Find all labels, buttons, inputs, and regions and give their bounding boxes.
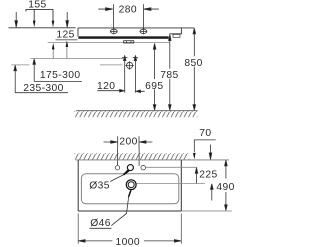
svg-text:850: 850 xyxy=(184,58,202,69)
floor hatching xyxy=(74,111,198,117)
reference line B left segment xyxy=(11,64,29,66)
280 left arrow xyxy=(98,8,112,11)
basin left edge xyxy=(77,28,79,37)
reference line A xyxy=(31,58,125,60)
200 extension to left fixing hole xyxy=(117,148,119,166)
drain hole outer circle xyxy=(126,180,136,190)
280 right arrow xyxy=(144,8,159,11)
70 left down arrow xyxy=(193,153,196,160)
155 extension left xyxy=(33,9,35,20)
wall line (plan view) xyxy=(76,159,229,161)
arrow down at x=16 xyxy=(15,12,18,27)
svg-text:Ø35: Ø35 xyxy=(89,181,110,192)
left fixing hole xyxy=(115,166,119,170)
arrow down at x=34 xyxy=(33,21,36,28)
countertop right edge xyxy=(180,160,182,211)
Ø35 leader bold tip xyxy=(124,171,129,175)
arrow down at x=53 xyxy=(52,21,55,28)
basin rear rim detail box xyxy=(173,34,180,37)
svg-text:70: 70 xyxy=(199,128,211,139)
1000 extension right xyxy=(180,214,182,244)
basin underside thick band xyxy=(78,37,168,39)
155 bracket line xyxy=(26,9,53,11)
svg-text:200: 200 xyxy=(119,137,137,148)
top baseline (basin deck level, left) xyxy=(9,27,76,29)
arrow up for 235-300 xyxy=(14,65,17,93)
basin right edge xyxy=(170,28,182,34)
faucet hole marker right xyxy=(140,28,148,34)
120 underline and right arrow xyxy=(97,89,124,92)
faucet hole marker left xyxy=(110,28,118,34)
drill symbol xyxy=(125,61,134,69)
Ø46 underline xyxy=(90,227,112,229)
200 right tick and arrow xyxy=(139,136,152,148)
70 bracket xyxy=(194,140,215,152)
right fixing hole xyxy=(141,165,146,170)
basin side profile top surface xyxy=(78,27,194,29)
svg-text:125: 125 xyxy=(56,29,74,40)
wall hatching xyxy=(75,153,189,159)
svg-text:Ø46: Ø46 xyxy=(90,218,111,229)
auxiliary up arrow at drain line xyxy=(211,184,214,201)
hanging arrow at x=67 xyxy=(66,47,68,59)
svg-text:280: 280 xyxy=(119,5,137,16)
Ø46 leader bold tip xyxy=(129,190,131,197)
Ø35 leader xyxy=(110,175,124,182)
70 right down arrow xyxy=(209,145,212,160)
faucet axis line xyxy=(146,166,198,168)
695 leader left arrow xyxy=(136,90,145,93)
280 extension line right xyxy=(142,4,144,29)
svg-text:490: 490 xyxy=(216,182,234,193)
height dimension 850 xyxy=(193,28,196,110)
supply line left with up arrow xyxy=(122,55,127,92)
drain hole inner circle xyxy=(128,182,134,188)
1000 dimension line right arrow xyxy=(144,240,181,243)
1000 dimension line left arrow xyxy=(78,240,112,243)
ceramic basin inner outline xyxy=(81,174,178,204)
under-slab reference line xyxy=(48,41,170,43)
faucet body circle xyxy=(127,165,133,171)
front extension line for 490 xyxy=(181,210,232,212)
Ø46 leader xyxy=(111,197,128,226)
200 left tick and arrow xyxy=(104,136,118,148)
280 extension line left xyxy=(113,4,115,29)
arrow up for 175-300 xyxy=(33,59,36,82)
hanging arrow at x=53 xyxy=(52,49,54,58)
155 extension right xyxy=(52,9,54,20)
arrow down at x=67 xyxy=(66,12,69,27)
svg-text:695: 695 xyxy=(145,81,163,92)
svg-text:1000: 1000 xyxy=(115,237,140,247)
200 extension to faucet hole xyxy=(138,148,140,166)
reference line B right segment xyxy=(100,64,122,66)
drain axis line xyxy=(137,182,205,184)
175-300 underline xyxy=(34,80,82,82)
svg-text:785: 785 xyxy=(160,70,178,81)
235-300 underline xyxy=(15,92,68,94)
height dimension 695 xyxy=(153,43,156,110)
supply line right with up arrow xyxy=(133,55,138,92)
floor line xyxy=(76,110,198,112)
height dimension 785 xyxy=(169,34,172,110)
125 label underline xyxy=(56,39,78,41)
svg-text:225: 225 xyxy=(199,170,217,181)
225 dimension arrow xyxy=(195,168,198,184)
countertop front edge xyxy=(78,210,181,212)
1000 extension left xyxy=(77,214,79,244)
490 dimension line xyxy=(225,160,228,210)
countertop left edge xyxy=(77,160,79,211)
svg-text:175-300: 175-300 xyxy=(40,70,81,81)
basin underside line xyxy=(78,35,168,37)
faucet lever stroke xyxy=(124,170,129,175)
mounting bracket under basin xyxy=(124,41,134,43)
